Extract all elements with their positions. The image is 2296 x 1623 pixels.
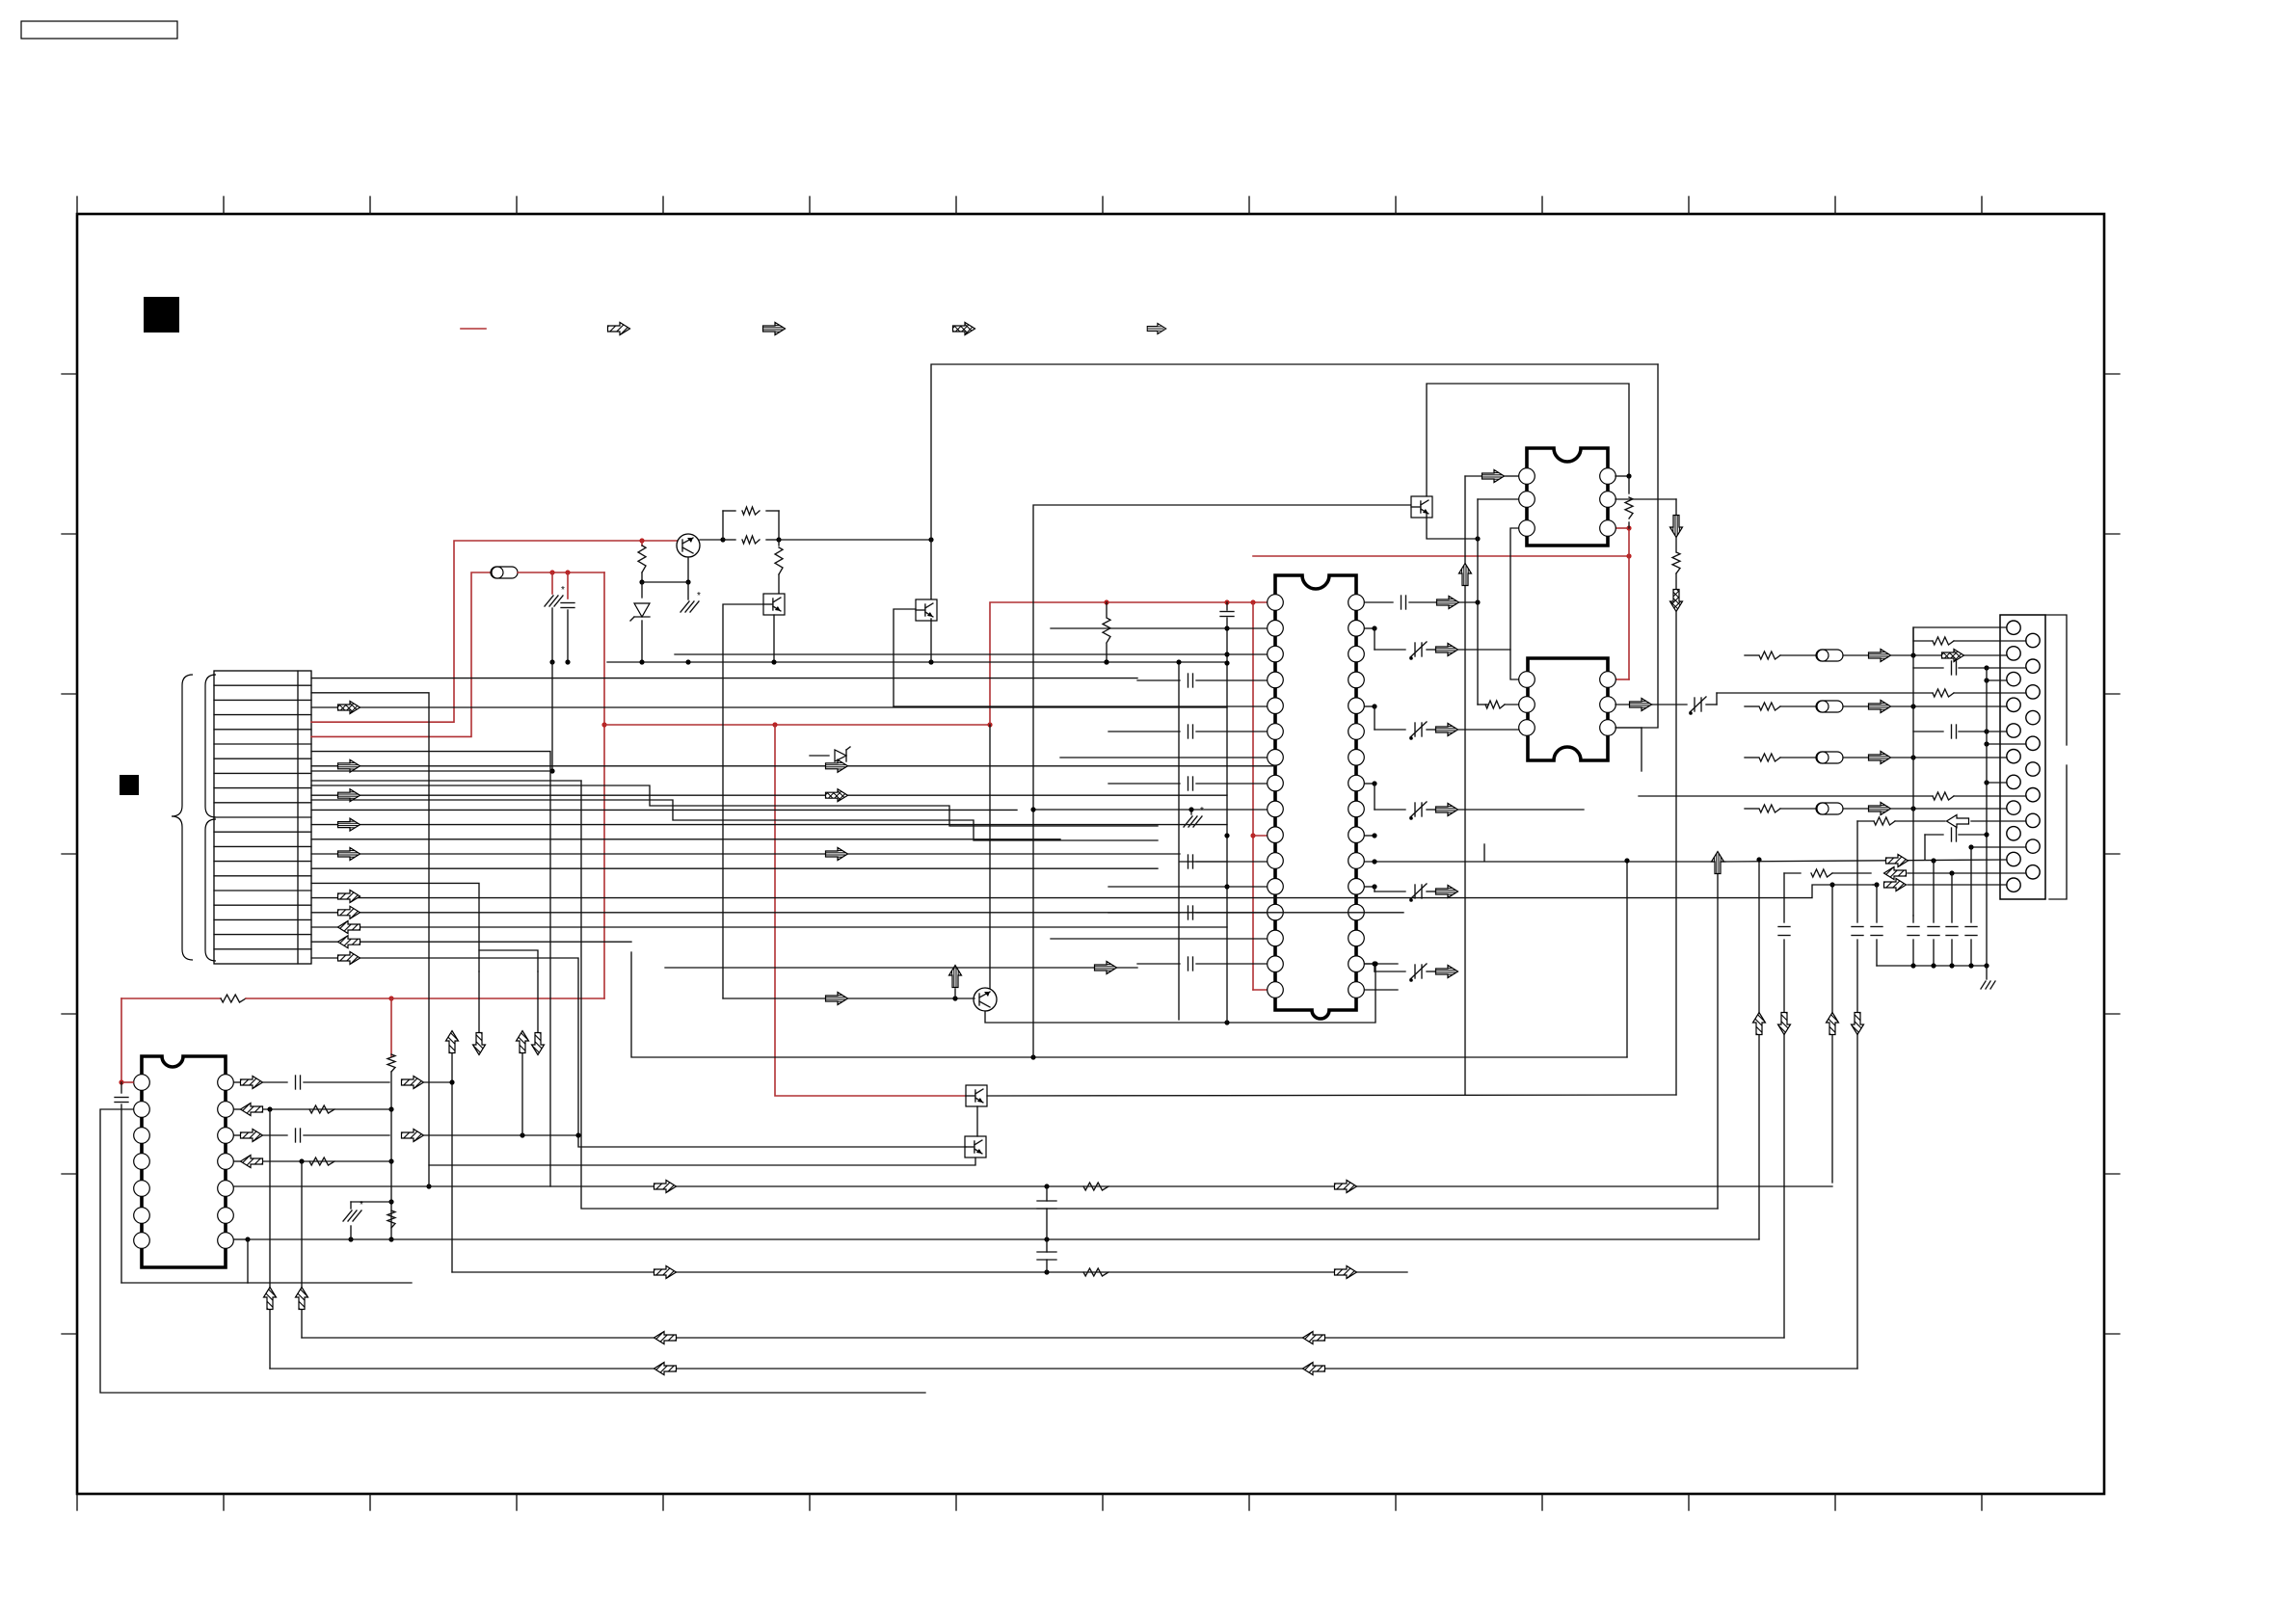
wire PC5 bottom out: [429, 1157, 975, 1165]
opto PC2: [916, 599, 937, 621]
wire riser 1072 full: [1032, 810, 1034, 1057]
wire row8 long: [311, 794, 1227, 796]
resistor R21: [1811, 869, 1832, 877]
arrow l row17: [338, 921, 360, 934]
wire 1738 to rail 1136: [1675, 611, 1677, 1095]
capacitor C6 pin13: [1108, 912, 1180, 914]
IC U1 left pins: [1268, 595, 1284, 998]
row 892: [1725, 860, 2007, 862]
arrow l rail1388 a: [654, 1332, 677, 1344]
svg-text:*: *: [561, 585, 565, 596]
wire row2 long: [311, 706, 1227, 708]
capacitor C11: [120, 1082, 122, 1093]
wire top loop: [931, 364, 1658, 541]
wire row5 drop 571: [311, 752, 550, 1186]
feed row 839: [1745, 808, 1758, 810]
capacitor C3 pin6: [1108, 731, 1180, 732]
wire red stub U2 pin: [1615, 527, 1629, 529]
arrow h rail1320 b: [1335, 1266, 1357, 1279]
wire row10 long: [311, 824, 1227, 826]
arrow h 892: [1886, 855, 1909, 867]
capacitor C2 pin4: [1137, 679, 1180, 681]
arrow h row15: [338, 891, 360, 903]
gyro filter: [343, 1211, 352, 1221]
row 906: [1784, 872, 1801, 874]
wire riser 1533: [1477, 499, 1479, 602]
wire PC4-PC5 link: [976, 1106, 978, 1136]
connector CN1 braces: [172, 675, 193, 960]
U4 pin1 out: [234, 1081, 240, 1083]
IC U2 body: [1527, 448, 1608, 545]
wire right riser 1782: [1717, 873, 1719, 1209]
capacitor C4 pin8: [1108, 783, 1180, 785]
wire Q2 base: [723, 998, 974, 999]
wire row7 drop 603: [311, 780, 581, 782]
capacitor C5 pin11: [1180, 861, 1227, 863]
rail 1320: [452, 1271, 1407, 1273]
filter jog: [1365, 705, 1375, 707]
wire filter row 674 tail: [1458, 649, 1510, 651]
legend red wire sample: [461, 328, 486, 330]
column 2045 with cap: [1970, 847, 1972, 922]
wire red vertical 1690: [1628, 528, 1630, 679]
resistor R3: [723, 539, 735, 541]
arrow up 469: [446, 1031, 459, 1053]
frame tick marks top/bottom: [77, 197, 1982, 1510]
arrow s row12b: [826, 848, 848, 861]
wire PC2 left: [894, 609, 916, 706]
column 1947 with cap: [1876, 885, 1878, 922]
transistor Q2: [974, 988, 997, 1011]
wire row11 long: [311, 838, 1060, 840]
wire row13 long: [311, 867, 1158, 869]
column 1927 with cap: [1856, 821, 1858, 922]
arrow pin1R: [1437, 597, 1459, 609]
arrow l row18: [338, 936, 360, 948]
cap chain 1086: [1037, 1200, 1056, 1202]
feed row 733: [1745, 705, 1758, 707]
wire Q1 collector: [700, 539, 723, 541]
U4 pin2 out: [234, 1108, 240, 1110]
resistor R6: [1478, 704, 1488, 705]
U4 pin4 out: [234, 1160, 240, 1162]
arrow down xh 1738: [1670, 590, 1683, 612]
column 1901: [1831, 885, 1833, 1183]
wire U3 pin3 stub: [1615, 727, 1642, 729]
U4 pin3 out: [234, 1134, 240, 1136]
index square A: [144, 297, 179, 333]
arrow out: [1427, 891, 1435, 892]
rail 1388: [302, 1337, 1784, 1339]
wire staircase B: [311, 800, 1158, 840]
wire row 719 feed: [1716, 693, 1718, 705]
wire red rail 594: [518, 572, 604, 573]
row 918: [1874, 882, 1879, 887]
arrow 2 pin3: [402, 1130, 424, 1142]
wire filter row 757 tail: [1458, 729, 1562, 731]
connector CN2 bracket: [2045, 615, 2067, 745]
ground bus 687: [607, 661, 1227, 663]
arrow left pin2: [241, 1104, 263, 1116]
IC U4 pins: [134, 1075, 234, 1249]
wire red vertical 627: [603, 572, 605, 998]
legend fine-striped arrow: [1147, 323, 1166, 333]
wire 966 drop: [930, 540, 932, 599]
rail 1285: [391, 1238, 1759, 1240]
wire row16 long: [311, 912, 1403, 914]
arrow out: [1427, 809, 1435, 811]
wire row9 long: [311, 809, 1017, 811]
arrow up glyph 280: [264, 1288, 277, 1310]
wire collector rail to 966: [779, 539, 931, 541]
col 280 down: [269, 1109, 271, 1369]
title box: [21, 21, 177, 39]
resistor R16: [309, 1157, 334, 1165]
row 852 output: [1971, 820, 2026, 822]
resistor R7: [1672, 552, 1680, 573]
arrow s row12: [338, 848, 360, 861]
transistor Q1: [677, 534, 700, 557]
opto PC1: [763, 594, 785, 615]
wire drop to U3 pin3: [1615, 364, 1658, 728]
opto PC3: [1411, 496, 1432, 518]
ground G1: [545, 596, 553, 606]
ground G2: [681, 601, 689, 612]
arrow h 918: [1884, 879, 1907, 891]
wire stub to C1: [567, 572, 569, 599]
svg-text:*: *: [697, 591, 701, 601]
wire rail 1273: [1226, 602, 1228, 610]
IC U1 body: [1275, 575, 1356, 1019]
riser 469: [451, 1082, 453, 1272]
wire rail 1223: [1178, 662, 1180, 1020]
wire Q2 emitter 1061: [985, 964, 1375, 1023]
wire U1 pin14L row: [1051, 938, 1267, 940]
wire row15 long: [311, 885, 1873, 898]
wire PC1 bottom: [773, 615, 775, 662]
wire filter row 840 tail: [1458, 809, 1584, 811]
arrow left h 906: [1884, 867, 1907, 880]
resistor R11 row 826: [1639, 795, 1933, 797]
arrow s row10: [338, 818, 360, 831]
ground G4: [1986, 966, 1988, 979]
arrow up col 1901: [1827, 1013, 1839, 1035]
arrow down 1738: [1670, 516, 1683, 538]
wire red stub U3 pin: [1615, 678, 1629, 680]
filter F6: [1694, 698, 1695, 711]
arrow l row16: [338, 906, 360, 918]
wire U4 pin2 left loop: [100, 1109, 925, 1393]
arrow up 1540: [1483, 844, 1485, 861]
arrow h rail1230 b: [1335, 1181, 1357, 1193]
zener D1: [641, 582, 643, 598]
arrow s row8: [338, 789, 360, 802]
frame tick marks left/right: [62, 374, 2120, 1334]
resistor R9 row 665: [1913, 640, 1933, 642]
wire red riser 1027: [990, 602, 1268, 725]
resistor R19: [1083, 1268, 1108, 1276]
arrow h row19: [338, 952, 360, 965]
wire red drop 406: [390, 998, 392, 1056]
column 1851 with cap: [1783, 873, 1785, 922]
resistor R20: [1628, 476, 1630, 493]
resistor R2: [723, 510, 735, 512]
wire red elbow pin16: [1253, 989, 1268, 991]
arrow xh row8b: [826, 789, 848, 802]
wire row0 to C2: [311, 678, 1137, 679]
wire red V+ feed row4 to rail: [311, 541, 642, 722]
IC U3 body: [1528, 658, 1608, 760]
arrow down col 1927: [1852, 1013, 1864, 1035]
index square B: [120, 775, 139, 795]
legend crosshatched arrow: [953, 323, 975, 335]
resistor R14: [387, 1054, 395, 1072]
resistor R15: [309, 1105, 334, 1113]
connector CN1 body: [214, 671, 311, 964]
legend striped arrow: [763, 323, 786, 335]
wire U1 pin3L row: [675, 653, 1267, 655]
wire base feed Q1: [642, 540, 677, 542]
U4 pin5 out row 1231: [426, 1184, 431, 1188]
wire PC3 top loop: [1427, 384, 1629, 496]
feed row 680: [1745, 654, 1758, 656]
wire row 733 pin5L: [894, 705, 1267, 707]
wire 1520 drop: [1464, 476, 1466, 1095]
wire row12 to C5: [311, 853, 1180, 855]
arrow into U2 pin1: [1465, 475, 1482, 477]
wire 497 drop from rows: [311, 883, 479, 971]
IC U3 pins: [1519, 672, 1616, 736]
filter jog: [1365, 627, 1375, 629]
opto PC4: [966, 1085, 987, 1106]
capacitor C9 row 759: [1913, 731, 1943, 732]
wire col 1985: [1912, 627, 1914, 916]
wire col 2061: [1986, 668, 1988, 966]
rail 1254: [581, 781, 1718, 1209]
arrow up on 1520: [1459, 564, 1472, 586]
border frame: [77, 214, 2104, 1494]
wire U1 pin12L row: [1108, 886, 1267, 888]
rail 1420: [270, 1368, 1857, 1370]
arrow h rail1320 a: [654, 1266, 677, 1279]
arrow l rail1388 b: [1303, 1332, 1325, 1344]
rail riser 1688: [1626, 861, 1628, 1057]
opto PC3 loop: [1033, 505, 1411, 810]
ground G3: [1190, 810, 1192, 814]
stub row 772: [1987, 743, 2026, 745]
wire PC1 left: [723, 604, 763, 998]
wire row18 drop 655: [311, 941, 631, 943]
filter jog: [1365, 963, 1375, 965]
wire row1 drop 445: [311, 693, 429, 1186]
wire 1331 stub: [121, 1282, 248, 1284]
resistor R13: [221, 995, 246, 1002]
arrow up 542: [517, 1031, 529, 1053]
arrow h rail1230 a: [654, 1181, 677, 1193]
wire U1 pin15R row: [1365, 963, 1398, 965]
arrow down 497: [478, 971, 480, 1032]
arrow up Q2: [954, 989, 956, 998]
wire row17: [311, 926, 1227, 928]
capacitor C8 row 693: [1913, 667, 1943, 669]
wire row19 drop 600: [311, 958, 966, 1147]
wire Q1 emitter: [687, 557, 689, 582]
IC U4 body: [142, 1056, 226, 1267]
wire red 577 rail mid: [1253, 555, 1629, 557]
bead L1: [491, 567, 518, 578]
red rail 1036: [121, 998, 221, 999]
wire PC3 bottom link: [1427, 514, 1478, 539]
arrow down 558: [537, 971, 539, 1032]
arrow up glyph 313: [296, 1288, 308, 1310]
rail 1230: [234, 1185, 1832, 1187]
wire row6 long: [311, 765, 1276, 767]
wire 1027 black drop: [989, 725, 991, 989]
resistor R10 row 719: [1933, 689, 1954, 697]
arrow U3 out: [1630, 699, 1652, 711]
wire red row5 to rail: [311, 572, 491, 736]
arrow s row6: [338, 759, 360, 772]
capacitor C12 row 866: [1925, 834, 1943, 836]
arrow up 1782: [1712, 852, 1724, 874]
wire red drop 804: [775, 725, 966, 1096]
IC U2 pins: [1519, 468, 1616, 537]
arrow s row6b: [826, 759, 848, 772]
wire U1 pin10R stub: [1365, 835, 1375, 837]
diode D2: [810, 755, 829, 757]
opto PC5: [965, 1136, 986, 1157]
feed row 786: [1745, 757, 1758, 758]
arrow out: [1427, 649, 1435, 651]
U4 pin7 out row 1286: [234, 1238, 248, 1240]
connector CN2 body: [2000, 615, 2045, 899]
wire staircase A: [311, 785, 1158, 826]
resistor R18: [1083, 1183, 1108, 1190]
capacitor C13: [1220, 611, 1234, 613]
stub row 812: [1987, 782, 2007, 784]
stub row 706: [1987, 679, 2007, 681]
resistor R4: [778, 540, 780, 545]
row 879 stub: [1971, 846, 2026, 848]
IC U1 right pins: [1348, 595, 1365, 998]
wire U3 pin2 out row 731: [1615, 704, 1652, 705]
wire 1533 down to U3: [1477, 602, 1479, 705]
resistor R1: [641, 541, 643, 545]
arrow 2 pin1: [402, 1077, 424, 1089]
wire red stub pin10: [1253, 835, 1268, 837]
wire U1 pin1R out: [1365, 601, 1393, 603]
legend hatched arrow: [608, 323, 630, 335]
wire drop 1738 chain: [1675, 499, 1677, 517]
arrow s row 1036: [826, 993, 848, 1005]
wire U2 pin3 to U3 pin1: [1510, 528, 1519, 679]
filter jog: [1365, 886, 1375, 888]
arrow left 852: [1947, 815, 1969, 828]
arrow s row 1004: [1095, 962, 1117, 974]
wire red 752 rail: [604, 724, 990, 726]
column 1985 with cap: [1912, 916, 1914, 922]
arrow xh 680: [1942, 650, 1964, 662]
arrow l rail1420 b: [1303, 1363, 1325, 1375]
arrow l rail1420 a: [654, 1363, 677, 1375]
resistor R12: [1874, 817, 1895, 825]
arrow out: [1427, 971, 1435, 972]
wire U2 pin2 right: [1615, 498, 1676, 500]
wire red drop to U4: [120, 998, 122, 1082]
common cap return 1002: [1877, 965, 1987, 967]
wire 558 drop: [479, 950, 538, 971]
wire PC4 out right: [987, 1095, 1676, 1096]
wire stub to ground: [551, 572, 553, 594]
col 257: [247, 1239, 249, 1283]
wire 573 drop to row 800: [551, 662, 553, 771]
svg-text:*: *: [1200, 806, 1204, 816]
wire PC2 bottom: [930, 619, 932, 662]
filter jog: [1365, 783, 1375, 785]
arrow up col 1825: [1753, 1013, 1766, 1035]
connector CN2 pins: [2007, 621, 2040, 891]
wire U1 pin2L row: [1051, 627, 1267, 629]
wire U2 out pin1: [1615, 475, 1629, 477]
col 313 down: [301, 1161, 303, 1338]
capacitor C7 pin15: [1137, 963, 1180, 965]
arrow xh row2: [338, 702, 360, 714]
resistor R17: [387, 1211, 395, 1228]
column 2006 with cap: [1933, 860, 1935, 922]
wire row 1004 feed: [665, 967, 1137, 969]
resistor R5: [1106, 602, 1108, 617]
column 2025 with cap: [1951, 873, 1953, 922]
wire red vertical 1300: [1252, 602, 1254, 990]
wire U1 pin7L row: [1060, 757, 1267, 758]
wire branch up 651: [1913, 627, 2007, 655]
arrow left pin4: [241, 1156, 263, 1168]
arrow out: [1427, 729, 1435, 731]
column 1825: [1758, 860, 1760, 1239]
arrow down col 1851: [1778, 1013, 1791, 1035]
wire U1 pin16R row: [1365, 989, 1398, 991]
capacitor C1: [561, 602, 574, 604]
wire U1 row 894 long: [1365, 861, 1725, 863]
wire U2 pin2 link: [1478, 498, 1518, 500]
rail 1097: [631, 952, 1627, 1057]
